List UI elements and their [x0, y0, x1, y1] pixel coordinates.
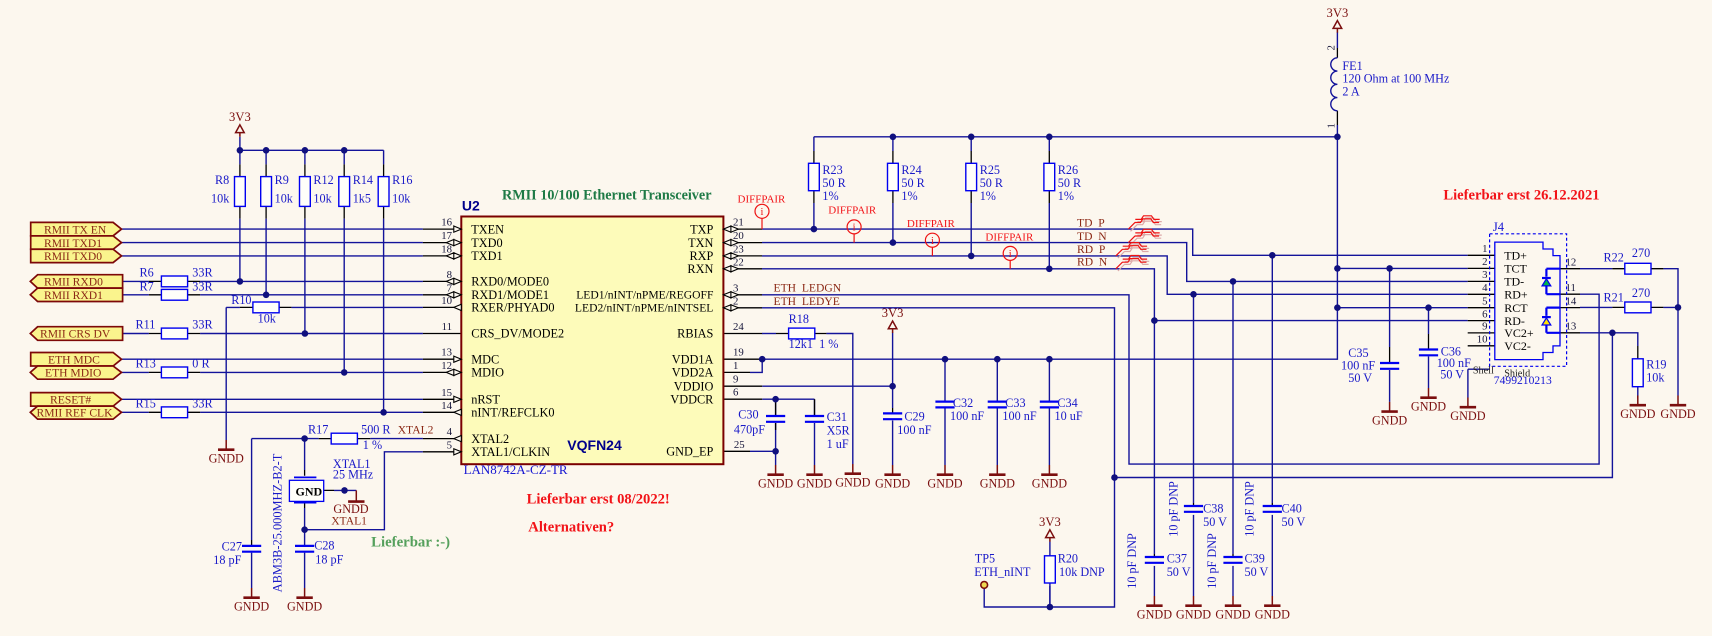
- wire R26 top: [1048, 137, 1050, 151]
- svg-text:9: 9: [733, 374, 738, 386]
- svg-text:R25: R25: [980, 163, 1000, 177]
- FE1 leads: [1336, 48, 1338, 125]
- wire ETH_MDIO: [122, 371, 423, 373]
- wire R20 top: [1049, 542, 1051, 556]
- port RMII_TXD0: [31, 249, 122, 263]
- wire C34 column: [1048, 359, 1050, 465]
- svg-text:18 pF: 18 pF: [315, 553, 343, 567]
- svg-text:1 uF: 1 uF: [827, 437, 849, 451]
- wire C35 gnd lead: [1389, 370, 1391, 402]
- wire C31 gnd lead: [814, 423, 816, 465]
- ground C40: [1255, 596, 1290, 622]
- wire analog supply bus: [814, 137, 1338, 151]
- svg-text:TD P: TD P: [1077, 217, 1105, 230]
- svg-text:XTAL1: XTAL1: [331, 515, 367, 528]
- svg-text:10k: 10k: [211, 192, 230, 206]
- svg-text:LED2/nINT/nPME/nINTSEL: LED2/nINT/nPME/nINTSEL: [575, 302, 713, 315]
- svg-text:CRS_DV/MODE2: CRS_DV/MODE2: [471, 327, 564, 341]
- resistor R11: [161, 328, 187, 339]
- capacitor C37: [1145, 557, 1164, 563]
- svg-text:C28: C28: [314, 539, 334, 553]
- svg-text:R9: R9: [275, 173, 289, 187]
- svg-text:R16: R16: [392, 173, 412, 187]
- R23-R26 leads: [814, 151, 1049, 203]
- diffpair mark TD_P: [1128, 216, 1161, 232]
- J4 right pin leads: [1560, 269, 1580, 333]
- wire R22 net: [1580, 269, 1678, 308]
- wire RMII_CRS_DV: [123, 333, 423, 335]
- svg-text:12k1 1 %: 12k1 1 %: [789, 337, 839, 351]
- svg-text:RESET#: RESET#: [50, 394, 91, 407]
- net labels TD/RD: [1077, 217, 1108, 269]
- wire C37 gnd lead: [1153, 566, 1155, 596]
- C30 leads: [775, 399, 777, 430]
- wire ETH_nINT to TP5: [984, 478, 1114, 608]
- svg-text:7: 7: [447, 282, 453, 294]
- capacitor C35: [1380, 363, 1399, 369]
- svg-text:50 R: 50 R: [1058, 176, 1082, 190]
- ground crystal pad: [333, 490, 368, 516]
- ground R19: [1620, 396, 1655, 422]
- svg-text:GND_EP: GND_EP: [666, 445, 713, 459]
- ground C39: [1215, 596, 1250, 622]
- termination resistor labels: [822, 163, 1082, 203]
- wire XTAL2 net: [252, 439, 423, 540]
- svg-text:C39: C39: [1245, 552, 1265, 566]
- svg-text:10k: 10k: [392, 192, 411, 206]
- wire R12 column: [304, 150, 306, 333]
- resistor R22: [1625, 263, 1651, 274]
- svg-text:10k: 10k: [258, 311, 277, 325]
- svg-text:17: 17: [441, 230, 452, 242]
- connector J4 body: [1495, 242, 1560, 360]
- svg-text:LAN8742A-CZ-TR: LAN8742A-CZ-TR: [464, 462, 568, 477]
- port RMII_REF_CLK: [30, 406, 121, 419]
- svg-text:R7: R7: [140, 279, 154, 293]
- resistor R24: [888, 163, 899, 190]
- svg-text:VDDIO: VDDIO: [674, 379, 714, 393]
- capacitor C39: [1223, 557, 1242, 563]
- svg-text:R14: R14: [353, 173, 373, 187]
- svg-text:13: 13: [1566, 321, 1577, 333]
- wire R16 column: [383, 150, 385, 412]
- svg-text:16: 16: [441, 217, 452, 229]
- wire R25 top: [970, 137, 972, 151]
- resistor R7: [161, 289, 187, 300]
- svg-text:C32: C32: [953, 396, 973, 410]
- U2 pin arrows right: [723, 226, 738, 232]
- svg-text:R21: R21: [1604, 290, 1624, 304]
- R18 leads: [776, 333, 826, 335]
- svg-text:4: 4: [447, 426, 453, 438]
- svg-text:1: 1: [1482, 243, 1487, 255]
- wire C38 gnd lead: [1193, 515, 1195, 596]
- wire RMII_TXD0: [122, 255, 423, 257]
- svg-text:23: 23: [733, 243, 744, 255]
- wire RXER strap: [226, 307, 423, 440]
- svg-text:RD N: RD N: [1077, 256, 1108, 269]
- C29 leads: [892, 408, 894, 413]
- diffpair mark TD_N: [1128, 229, 1161, 245]
- svg-text:C33: C33: [1005, 396, 1025, 410]
- svg-text:25: 25: [734, 439, 745, 451]
- svg-text:100 nF: 100 nF: [950, 409, 984, 423]
- capacitor C34: [1040, 402, 1059, 408]
- svg-text:TXN: TXN: [688, 236, 713, 250]
- wire R24 bottom: [892, 203, 894, 243]
- svg-text:11: 11: [442, 321, 452, 333]
- U2 left pin names: [471, 222, 564, 459]
- wire RMII_REF_CLK: [122, 411, 423, 413]
- svg-text:10 pF DNP: 10 pF DNP: [1166, 481, 1180, 537]
- svg-text:1: 1: [1326, 123, 1338, 128]
- svg-text:MDC: MDC: [471, 352, 499, 366]
- svg-text:10k DNP: 10k DNP: [1059, 565, 1105, 579]
- port RMII_RXD0: [30, 275, 122, 289]
- svg-text:RXN: RXN: [687, 262, 713, 276]
- wire C38 branch: [1193, 294, 1195, 503]
- svg-text:TD N: TD N: [1077, 230, 1107, 243]
- svg-text:RMII TXD0: RMII TXD0: [44, 250, 102, 263]
- svg-text:R20: R20: [1058, 552, 1078, 566]
- svg-text:8: 8: [447, 269, 452, 281]
- svg-text:50 V: 50 V: [1282, 515, 1306, 529]
- svg-text:12: 12: [441, 360, 452, 372]
- svg-text:0 R: 0 R: [192, 357, 210, 371]
- wire R9 column: [265, 150, 267, 294]
- wire R19 bottom: [1637, 387, 1639, 396]
- crystal leads: [305, 470, 334, 508]
- svg-text:18: 18: [441, 243, 452, 255]
- svg-text:R19: R19: [1646, 358, 1666, 372]
- svg-text:R8: R8: [215, 173, 229, 187]
- C37-C40 leads: [1154, 503, 1272, 556]
- ground C35: [1372, 402, 1407, 428]
- wire C36 gnd lead: [1428, 357, 1430, 389]
- svg-text:R26: R26: [1058, 163, 1078, 177]
- C27 C28 leads: [252, 540, 305, 545]
- wire C40 gnd lead: [1271, 515, 1273, 596]
- wire ETH_LEDYE: [762, 308, 1612, 478]
- svg-text:RMII RXD0: RMII RXD0: [44, 276, 103, 289]
- svg-text:TP5: TP5: [975, 552, 995, 566]
- svg-text:ABM3B-25.000MHZ-B2-T: ABM3B-25.000MHZ-B2-T: [271, 453, 285, 592]
- svg-text:24: 24: [733, 321, 744, 333]
- wire C33 column: [996, 359, 998, 465]
- wire C39 gnd lead: [1232, 566, 1234, 596]
- diffpair directive RXN: [1003, 246, 1017, 268]
- wire R21 net: [1580, 306, 1678, 308]
- ground C31: [797, 465, 832, 491]
- svg-text:DIFFPAIR: DIFFPAIR: [738, 193, 787, 205]
- wire C39 branch: [1232, 281, 1234, 554]
- svg-text:GND: GND: [296, 484, 323, 498]
- resistor R8: [235, 177, 246, 207]
- capacitor C33: [988, 402, 1007, 408]
- svg-text:33R: 33R: [192, 265, 213, 279]
- svg-text:1%: 1%: [822, 189, 838, 203]
- pullup labels: [211, 173, 412, 206]
- svg-text:TXP: TXP: [690, 222, 713, 236]
- svg-text:RBIAS: RBIAS: [677, 327, 713, 341]
- svg-text:U2: U2: [462, 198, 480, 214]
- svg-text:15: 15: [441, 387, 452, 399]
- svg-text:RMII TXD1: RMII TXD1: [44, 237, 102, 250]
- svg-text:19: 19: [733, 347, 744, 359]
- svg-text:50 R: 50 R: [980, 176, 1004, 190]
- wire 3V3 pullup bus: [240, 137, 384, 151]
- wire TXN to staircase: [762, 243, 1468, 282]
- wire R8 column: [239, 150, 241, 281]
- R17 leads: [319, 438, 371, 440]
- led green: [1542, 278, 1551, 286]
- ground shell: [1450, 398, 1485, 424]
- svg-text:DIFFPAIR: DIFFPAIR: [828, 205, 877, 217]
- resistor R14: [339, 177, 350, 207]
- port RESET#: [31, 393, 122, 407]
- svg-text:10 pF DNP: 10 pF DNP: [1125, 533, 1139, 589]
- wire RESET#: [122, 398, 423, 400]
- svg-text:50 V: 50 V: [1167, 565, 1191, 579]
- power 3V3 left: [229, 110, 251, 137]
- svg-text:R6: R6: [140, 265, 154, 279]
- port RMII_TXD1: [31, 236, 122, 250]
- svg-text:R22: R22: [1604, 251, 1624, 265]
- svg-text:1%: 1%: [901, 189, 917, 203]
- wire VDDIO net: [762, 333, 892, 408]
- wire RCT: [1337, 308, 1467, 334]
- svg-text:3: 3: [1482, 269, 1487, 281]
- svg-text:5: 5: [1482, 295, 1487, 307]
- svg-text:C27: C27: [222, 540, 242, 554]
- svg-text:RXP: RXP: [689, 249, 713, 263]
- wire FE1 feed: [1336, 32, 1338, 307]
- svg-text:50 V: 50 V: [1440, 368, 1464, 382]
- C35 C36 leads: [1390, 334, 1429, 362]
- svg-text:10: 10: [1477, 334, 1488, 346]
- svg-text:TXD1: TXD1: [471, 249, 502, 263]
- svg-text:1k5: 1k5: [353, 192, 371, 206]
- svg-text:R13: R13: [136, 357, 156, 371]
- svg-text:LED1/nINT/nPME/REGOFF: LED1/nINT/nPME/REGOFF: [576, 289, 714, 302]
- wire VDDCR net: [762, 399, 814, 415]
- wire R26 bottom: [1048, 203, 1050, 269]
- R6 R7 leads: [149, 281, 200, 294]
- svg-text:11: 11: [1566, 282, 1576, 294]
- svg-text:2: 2: [1326, 45, 1338, 50]
- U2 right pin numbers: [733, 217, 745, 451]
- svg-text:33R: 33R: [192, 279, 213, 293]
- wire R18 to gnd: [826, 334, 852, 465]
- power 3V3 vddio: [882, 306, 904, 333]
- svg-text:50 R: 50 R: [901, 176, 925, 190]
- svg-text:18 pF: 18 pF: [213, 553, 241, 567]
- svg-text:RXER/PHYAD0: RXER/PHYAD0: [471, 301, 554, 315]
- resistor R6: [161, 276, 187, 287]
- wire RXN to staircase: [762, 269, 1468, 321]
- svg-text:Lieferbar erst 08/2022!: Lieferbar erst 08/2022!: [527, 492, 670, 508]
- svg-text:VQFN24: VQFN24: [567, 437, 622, 453]
- svg-text:20: 20: [733, 230, 744, 242]
- svg-text:270: 270: [1632, 286, 1650, 300]
- svg-text:50 V: 50 V: [1245, 565, 1269, 579]
- R20 leads: [1049, 555, 1051, 583]
- series resistor labels: [136, 265, 392, 452]
- ground leds: [1660, 396, 1695, 422]
- capacitor C30: [766, 416, 785, 422]
- wire C30 bottom GND_EP: [750, 423, 776, 465]
- svg-text:500 R: 500 R: [361, 422, 391, 436]
- port RMII_TX_EN: [31, 222, 122, 236]
- wire leds gnd: [1677, 307, 1679, 395]
- resistor R15: [161, 407, 187, 418]
- svg-text:VDDCR: VDDCR: [670, 392, 714, 406]
- crystal XT1 body: [289, 477, 323, 502]
- svg-text:X5R: X5R: [827, 424, 851, 438]
- svg-text:RMII CRS DV: RMII CRS DV: [40, 328, 111, 341]
- wire crystal gnd pad: [334, 489, 356, 491]
- resistor R12: [300, 177, 311, 207]
- wire RMII_TX_EN: [122, 228, 423, 230]
- diffpair mark RD_P: [1116, 243, 1149, 259]
- ground C36: [1411, 388, 1446, 414]
- wire RMII_RXD1: [123, 294, 423, 296]
- svg-text:22: 22: [733, 256, 744, 268]
- svg-text:XTAL1/CLKIN: XTAL1/CLKIN: [471, 445, 550, 459]
- pullup resistor leads R8 R9 R12 R14 R16: [240, 164, 384, 218]
- ground C34: [1032, 465, 1067, 491]
- svg-text:2: 2: [1482, 256, 1487, 268]
- svg-text:RXD0/MODE0: RXD0/MODE0: [471, 275, 549, 289]
- svg-text:VDD2A: VDD2A: [672, 366, 714, 380]
- svg-text:RMII 10/100 Ethernet Transceiv: RMII 10/100 Ethernet Transceiver: [502, 187, 712, 203]
- svg-text:270: 270: [1632, 246, 1650, 260]
- svg-text:7499210213: 7499210213: [1494, 374, 1552, 387]
- ground C28: [287, 588, 322, 614]
- wire TCT: [1337, 268, 1467, 347]
- R19 leads: [1637, 346, 1639, 359]
- testpoint TP5: [981, 582, 988, 589]
- svg-text:XTAL2: XTAL2: [471, 432, 509, 446]
- svg-text:5: 5: [447, 439, 452, 451]
- capacitor C32: [935, 402, 954, 408]
- svg-text:10k: 10k: [1646, 371, 1665, 385]
- svg-text:Shell: Shell: [1473, 365, 1494, 376]
- svg-text:C37: C37: [1167, 552, 1187, 566]
- C31 leads: [814, 399, 816, 415]
- svg-text:33R: 33R: [192, 318, 213, 332]
- svg-text:R18: R18: [789, 312, 809, 326]
- svg-text:TXD0: TXD0: [471, 236, 502, 250]
- ground C38: [1176, 596, 1211, 622]
- resistor R26: [1044, 163, 1055, 190]
- svg-text:50 R: 50 R: [822, 176, 846, 190]
- svg-text:ETH_nINT: ETH_nINT: [974, 565, 1031, 579]
- svg-text:10: 10: [441, 295, 452, 307]
- svg-text:10k: 10k: [275, 192, 294, 206]
- svg-text:25 MHz: 25 MHz: [333, 467, 374, 481]
- ground C32: [927, 465, 962, 491]
- svg-text:R10: R10: [231, 293, 251, 307]
- diffpair directive TXN: [847, 220, 861, 243]
- svg-text:21: 21: [733, 217, 744, 229]
- svg-text:C29: C29: [904, 410, 924, 424]
- U2 left pin numbers: [441, 217, 452, 452]
- svg-text:RMII REF CLK: RMII REF CLK: [37, 407, 114, 420]
- resistor R18: [789, 328, 815, 339]
- resistor R19: [1632, 359, 1643, 387]
- svg-text:Lieferbar :-): Lieferbar :-): [371, 534, 450, 550]
- svg-text:C34: C34: [1057, 396, 1077, 410]
- wire RXP to staircase: [762, 256, 1468, 294]
- ground C37: [1137, 596, 1172, 622]
- svg-text:C40: C40: [1282, 501, 1302, 515]
- capacitor labels mid: [734, 396, 1083, 451]
- diffpair directive TXP: [755, 204, 769, 229]
- svg-text:R23: R23: [822, 163, 842, 177]
- svg-text:6: 6: [733, 387, 739, 399]
- svg-text:ETH LEDYE: ETH LEDYE: [774, 295, 840, 308]
- resistor R25: [966, 163, 977, 190]
- ground R10: [209, 440, 244, 466]
- svg-text:DIFFPAIR: DIFFPAIR: [985, 232, 1034, 244]
- svg-text:14: 14: [1566, 296, 1577, 308]
- resistor R17: [331, 433, 357, 444]
- ground C29: [875, 465, 910, 491]
- led yellow: [1542, 317, 1551, 325]
- svg-text:RMII TX EN: RMII TX EN: [44, 223, 107, 236]
- svg-text:Lieferbar erst 26.12.2021: Lieferbar erst 26.12.2021: [1443, 187, 1599, 203]
- capacitor C31: [805, 416, 824, 422]
- svg-text:nINT/REFCLK0: nINT/REFCLK0: [471, 406, 554, 420]
- svg-text:TXEN: TXEN: [471, 222, 504, 236]
- wire R14 column: [343, 150, 345, 372]
- svg-text:1%: 1%: [980, 189, 996, 203]
- wire RBIAS to R18: [762, 333, 776, 335]
- capacitor C36: [1419, 350, 1438, 356]
- wire C32 column: [944, 359, 946, 465]
- ground C33: [980, 465, 1015, 491]
- ground C27: [234, 588, 269, 614]
- svg-text:MDIO: MDIO: [471, 366, 504, 380]
- svg-text:TCT: TCT: [1504, 262, 1527, 276]
- svg-text:2 A: 2 A: [1342, 85, 1359, 99]
- J4 led wiring: [1546, 269, 1560, 333]
- wire RMII_TXD1: [122, 242, 423, 244]
- wire R24 top: [892, 137, 894, 151]
- wire R25 bottom: [970, 203, 972, 256]
- svg-text:2: 2: [733, 295, 738, 307]
- ferrite bead FE1: [1331, 58, 1338, 111]
- diffpair texts: [738, 193, 1034, 243]
- svg-text:C31: C31: [827, 410, 847, 424]
- svg-text:R12: R12: [313, 173, 333, 187]
- resistor R23: [809, 163, 820, 190]
- IC U2 body: [461, 217, 723, 465]
- svg-text:Alternativen?: Alternativen?: [528, 519, 614, 535]
- wire R19 net: [1612, 333, 1637, 399]
- capacitor C27: [242, 546, 261, 552]
- C32 C33 C34 leads: [945, 400, 1049, 403]
- R22 R21 leads: [1612, 269, 1663, 308]
- capacitor C40: [1263, 506, 1282, 512]
- U2 pin arrows left: [454, 226, 462, 232]
- port ETH_MDC: [31, 353, 122, 367]
- svg-text:ETH LEDGN: ETH LEDGN: [774, 282, 842, 295]
- svg-text:R17: R17: [308, 422, 328, 436]
- connector J4 dashed frame: [1490, 234, 1567, 366]
- svg-text:3: 3: [733, 282, 738, 294]
